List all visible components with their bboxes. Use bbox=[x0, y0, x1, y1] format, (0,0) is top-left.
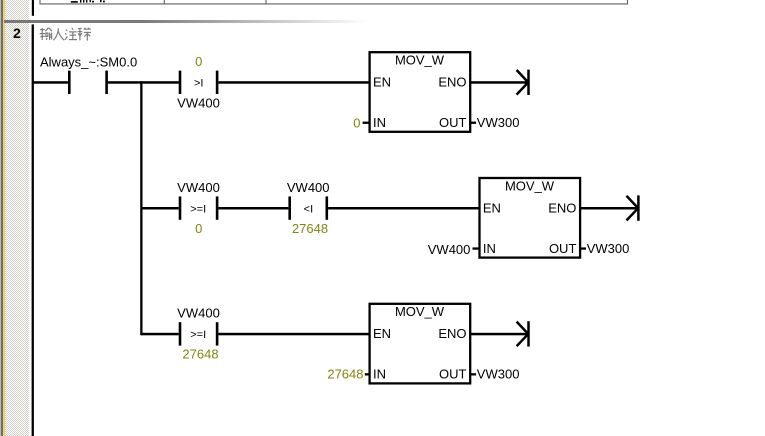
wire stub U3.OUT to VW300 bbox=[470, 373, 477, 375]
svg-text:Always_~:SM0.0: Always_~:SM0.0 bbox=[40, 55, 137, 70]
network separator gradient bar bbox=[4, 20, 604, 23]
network comment text 输入注释 bbox=[40, 28, 91, 41]
compare contact CMP4 (VW400 &gt;= 27648) bbox=[179, 322, 219, 345]
svg-text:<I: <I bbox=[304, 203, 313, 215]
svg-text:VW300: VW300 bbox=[477, 367, 520, 382]
wire stub 0 to U1.IN bbox=[363, 122, 370, 124]
wire compare contact 2 to compare contact 3 bbox=[218, 207, 288, 210]
svg-text:VW400: VW400 bbox=[177, 305, 220, 320]
svg-text:VW400: VW400 bbox=[177, 180, 220, 195]
network 1 clipped label text fragments "_输入" bbox=[71, 0, 105, 3]
svg-text:VW400: VW400 bbox=[428, 242, 471, 257]
wire U2.ENO to continuation arrow 2 bbox=[580, 207, 637, 210]
svg-text:MOV_W: MOV_W bbox=[395, 304, 445, 319]
svg-text:IN: IN bbox=[373, 115, 386, 130]
window left edge line bbox=[0, 0, 1, 436]
wire rail to contact SM0.0 bbox=[33, 81, 68, 84]
wire stub U1.OUT to VW300 bbox=[470, 122, 477, 124]
network number label 2 bbox=[13, 25, 33, 41]
MOV_W box U1 bbox=[370, 52, 471, 132]
continuation arrow rung 3 bbox=[517, 321, 529, 346]
svg-text:ENO: ENO bbox=[438, 326, 466, 341]
glyph 释 bbox=[78, 28, 92, 41]
contact Always_~:SM0.0 bbox=[68, 71, 108, 94]
svg-text:27648: 27648 bbox=[327, 367, 363, 382]
svg-text:VW400: VW400 bbox=[177, 95, 220, 110]
svg-text:OUT: OUT bbox=[549, 241, 577, 256]
svg-text:VW300: VW300 bbox=[477, 115, 520, 130]
svg-text:0: 0 bbox=[353, 116, 360, 131]
svg-text:VW300: VW300 bbox=[587, 241, 630, 256]
bookmark yellow strip bbox=[3, 0, 5, 436]
svg-text:IN: IN bbox=[373, 367, 386, 382]
svg-text:OUT: OUT bbox=[439, 115, 467, 130]
svg-text:ENO: ENO bbox=[438, 75, 466, 90]
network 1 instruction-box outline bottom (clipped) bbox=[40, 0, 628, 4]
wire stub VW400 to U2.IN bbox=[473, 247, 480, 249]
svg-text:EN: EN bbox=[373, 75, 391, 90]
network 1 left power rail (clipped at top) bbox=[32, 0, 34, 16]
svg-text:EN: EN bbox=[373, 326, 391, 341]
compare contact CMP3 (VW400 &lt; 27648) bbox=[288, 196, 328, 219]
svg-text:MOV_W: MOV_W bbox=[395, 53, 445, 68]
window border dark line bbox=[1, 0, 3, 436]
svg-text:0: 0 bbox=[195, 54, 202, 69]
glyph 注 bbox=[65, 28, 77, 40]
continuation arrow rung 1 bbox=[517, 70, 529, 95]
wire compare contact 1 to MOV_W U1 bbox=[218, 81, 369, 84]
svg-text:IN: IN bbox=[483, 241, 496, 256]
wire branch to compare contact 2 bbox=[141, 207, 179, 210]
wire compare contact 4 to MOV_W U3 bbox=[218, 333, 369, 336]
svg-text:0: 0 bbox=[195, 221, 202, 236]
svg-text:OUT: OUT bbox=[439, 367, 467, 382]
network 2 left power rail bbox=[32, 24, 34, 436]
svg-text:MOV_W: MOV_W bbox=[505, 178, 555, 193]
svg-text:EN: EN bbox=[483, 200, 501, 215]
wire stub 27648 to U3.IN bbox=[365, 373, 370, 375]
wire branch to compare contact 4 bbox=[141, 333, 179, 336]
svg-text:ENO: ENO bbox=[548, 200, 576, 215]
svg-text:27648: 27648 bbox=[182, 346, 218, 361]
wire stub U2.OUT to VW300 bbox=[580, 247, 587, 249]
continuation arrow rung 2 bbox=[627, 195, 639, 220]
MOV_W box U3 bbox=[370, 304, 471, 384]
svg-text:>I: >I bbox=[194, 78, 203, 90]
svg-text:27648: 27648 bbox=[292, 221, 328, 236]
dithered gutter column bbox=[5, 0, 30, 436]
wire U3.ENO to continuation arrow 3 bbox=[471, 333, 528, 336]
glyph 入 bbox=[53, 28, 64, 40]
MOV_W box U2 bbox=[480, 178, 581, 258]
branch junction vertical wire bbox=[140, 81, 142, 335]
svg-text:>=I: >=I bbox=[190, 329, 206, 341]
wire compare contact 3 to MOV_W U2 bbox=[328, 207, 479, 210]
svg-text:>=I: >=I bbox=[190, 203, 206, 215]
wire contact SM0.0 to compare contact 1 bbox=[108, 81, 179, 84]
compare contact CMP2 (VW400 &gt;= 0) bbox=[179, 196, 219, 219]
compare contact CMP1 (VW400 &gt; 0) bbox=[179, 71, 219, 94]
wire U1.ENO to continuation arrow 1 bbox=[471, 81, 528, 84]
svg-text:VW400: VW400 bbox=[287, 180, 330, 195]
glyph 输 bbox=[40, 28, 52, 40]
